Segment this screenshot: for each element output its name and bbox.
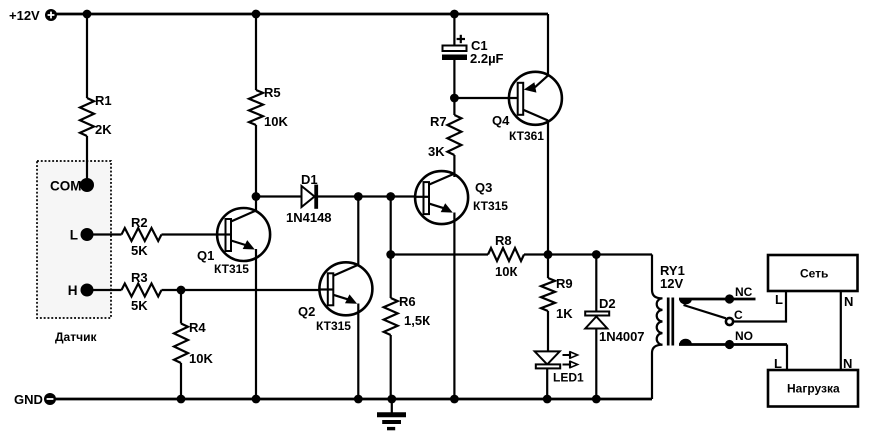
junction xyxy=(450,10,459,19)
box Нагрузка (load) xyxy=(768,370,858,407)
svg-text:C: C xyxy=(734,308,743,322)
junction xyxy=(543,395,552,404)
junction xyxy=(252,192,261,201)
relay RY1 coil xyxy=(652,255,685,400)
resistor R7 xyxy=(428,98,461,177)
wire Q1 emitter to ground xyxy=(255,249,257,399)
wire to relay coil xyxy=(548,253,652,255)
svg-text:R8: R8 xyxy=(495,233,512,248)
transistor Q4 KT361 (PNP) xyxy=(454,72,562,143)
junction xyxy=(83,10,92,19)
svg-text:Q4: Q4 xyxy=(492,113,510,128)
terminal H xyxy=(68,283,94,298)
wire GND bottom rail xyxy=(55,398,652,401)
junction xyxy=(252,395,261,404)
svg-text:H: H xyxy=(68,283,78,298)
LED LED1 xyxy=(535,351,584,399)
box Сеть (mains) xyxy=(768,255,858,291)
resistor R2 xyxy=(93,215,226,258)
resistor R6 xyxy=(384,197,430,400)
transistor Q1 KT315 xyxy=(197,208,270,276)
relay contact NC xyxy=(679,285,756,305)
resistor R5 xyxy=(249,14,288,197)
terminal COM xyxy=(50,178,94,194)
relay common armature xyxy=(684,305,744,325)
svg-text:GND: GND xyxy=(14,392,43,407)
svg-text:Нагрузка: Нагрузка xyxy=(787,382,840,396)
svg-text:Сеть: Сеть xyxy=(800,267,828,281)
junction xyxy=(177,286,186,295)
svg-text:12V: 12V xyxy=(660,276,683,291)
svg-text:L: L xyxy=(70,228,78,243)
svg-text:R7: R7 xyxy=(430,114,447,129)
junction xyxy=(450,395,459,404)
resistor R8 xyxy=(391,233,548,279)
wire Q2 emitter to ground xyxy=(357,304,359,400)
svg-text:N: N xyxy=(844,294,853,309)
svg-text:R6: R6 xyxy=(399,294,416,309)
wire Q4 emitter to +12V xyxy=(547,14,549,76)
junction xyxy=(354,192,363,201)
svg-text:1N4148: 1N4148 xyxy=(286,210,332,225)
svg-text:КТ315: КТ315 xyxy=(473,199,508,213)
svg-text:КТ361: КТ361 xyxy=(509,129,544,143)
svg-text:+12V: +12V xyxy=(9,8,40,23)
wire Q3 emitter to ground xyxy=(453,213,455,400)
svg-text:КТ315: КТ315 xyxy=(214,262,249,276)
svg-text:3K: 3K xyxy=(428,144,445,159)
wire NO to Нагрузка L xyxy=(786,345,788,371)
svg-text:R9: R9 xyxy=(556,276,573,291)
svg-text:COM: COM xyxy=(50,179,82,194)
transistor Q2 KT315 xyxy=(298,262,372,333)
svg-text:10K: 10K xyxy=(264,114,288,129)
wire C to Сеть L xyxy=(733,291,786,322)
svg-text:1N4007: 1N4007 xyxy=(599,329,645,344)
junction xyxy=(592,395,601,404)
svg-text:NC: NC xyxy=(735,285,753,299)
junction xyxy=(354,395,363,404)
junction xyxy=(386,250,395,259)
diode D2 1N4007 xyxy=(585,255,644,400)
svg-text:R2: R2 xyxy=(131,215,148,230)
capacitor C1 2.2uF xyxy=(442,14,504,98)
svg-text:2.2µF: 2.2µF xyxy=(470,51,504,66)
resistor R4 xyxy=(174,290,213,399)
sensor box Датчик xyxy=(37,161,111,344)
svg-text:2K: 2K xyxy=(95,122,112,137)
ground symbol xyxy=(377,399,406,429)
relay contact NO xyxy=(679,329,787,349)
svg-text:5K: 5K xyxy=(131,243,148,258)
wire +12V top rail xyxy=(56,13,548,16)
terminal GND xyxy=(14,392,56,407)
junction xyxy=(386,192,395,201)
diode D1 1N4148 xyxy=(256,172,358,225)
svg-text:LED1: LED1 xyxy=(553,371,584,385)
terminal +12V xyxy=(9,8,57,23)
svg-text:R5: R5 xyxy=(264,85,281,100)
wire Q1 collector xyxy=(255,197,257,213)
svg-text:NO: NO xyxy=(735,329,753,343)
svg-text:R4: R4 xyxy=(189,320,206,335)
svg-text:D1: D1 xyxy=(301,172,318,187)
svg-text:1,5К: 1,5К xyxy=(404,313,430,328)
wire D1 to Q3 base xyxy=(358,195,416,197)
svg-text:Q3: Q3 xyxy=(475,180,492,195)
svg-text:D2: D2 xyxy=(599,296,616,311)
svg-text:КТ315: КТ315 xyxy=(316,319,351,333)
resistor R3 xyxy=(93,270,320,313)
wire Q4 collector down xyxy=(547,120,549,255)
resistor R1 xyxy=(80,14,112,179)
svg-text:R1: R1 xyxy=(95,93,112,108)
svg-text:Q2: Q2 xyxy=(298,304,315,319)
junction xyxy=(592,250,601,259)
junction xyxy=(177,395,186,404)
svg-text:5K: 5K xyxy=(131,298,148,313)
svg-text:L: L xyxy=(775,292,783,307)
svg-text:R3: R3 xyxy=(131,270,148,285)
resistor R9 xyxy=(541,255,573,352)
svg-text:10K: 10K xyxy=(189,351,213,366)
svg-text:Датчик: Датчик xyxy=(55,330,97,344)
junction xyxy=(252,10,261,19)
transistor Q3 KT315 xyxy=(415,171,509,224)
junction xyxy=(450,94,459,103)
junction xyxy=(387,395,396,404)
svg-text:Q1: Q1 xyxy=(197,248,214,263)
wire Q2 collector xyxy=(357,197,359,266)
junction xyxy=(544,250,553,259)
svg-text:1K: 1K xyxy=(556,306,573,321)
terminal L xyxy=(70,228,94,243)
svg-text:10К: 10К xyxy=(495,264,517,279)
wire Сеть N to Нагрузка N xyxy=(840,291,842,370)
